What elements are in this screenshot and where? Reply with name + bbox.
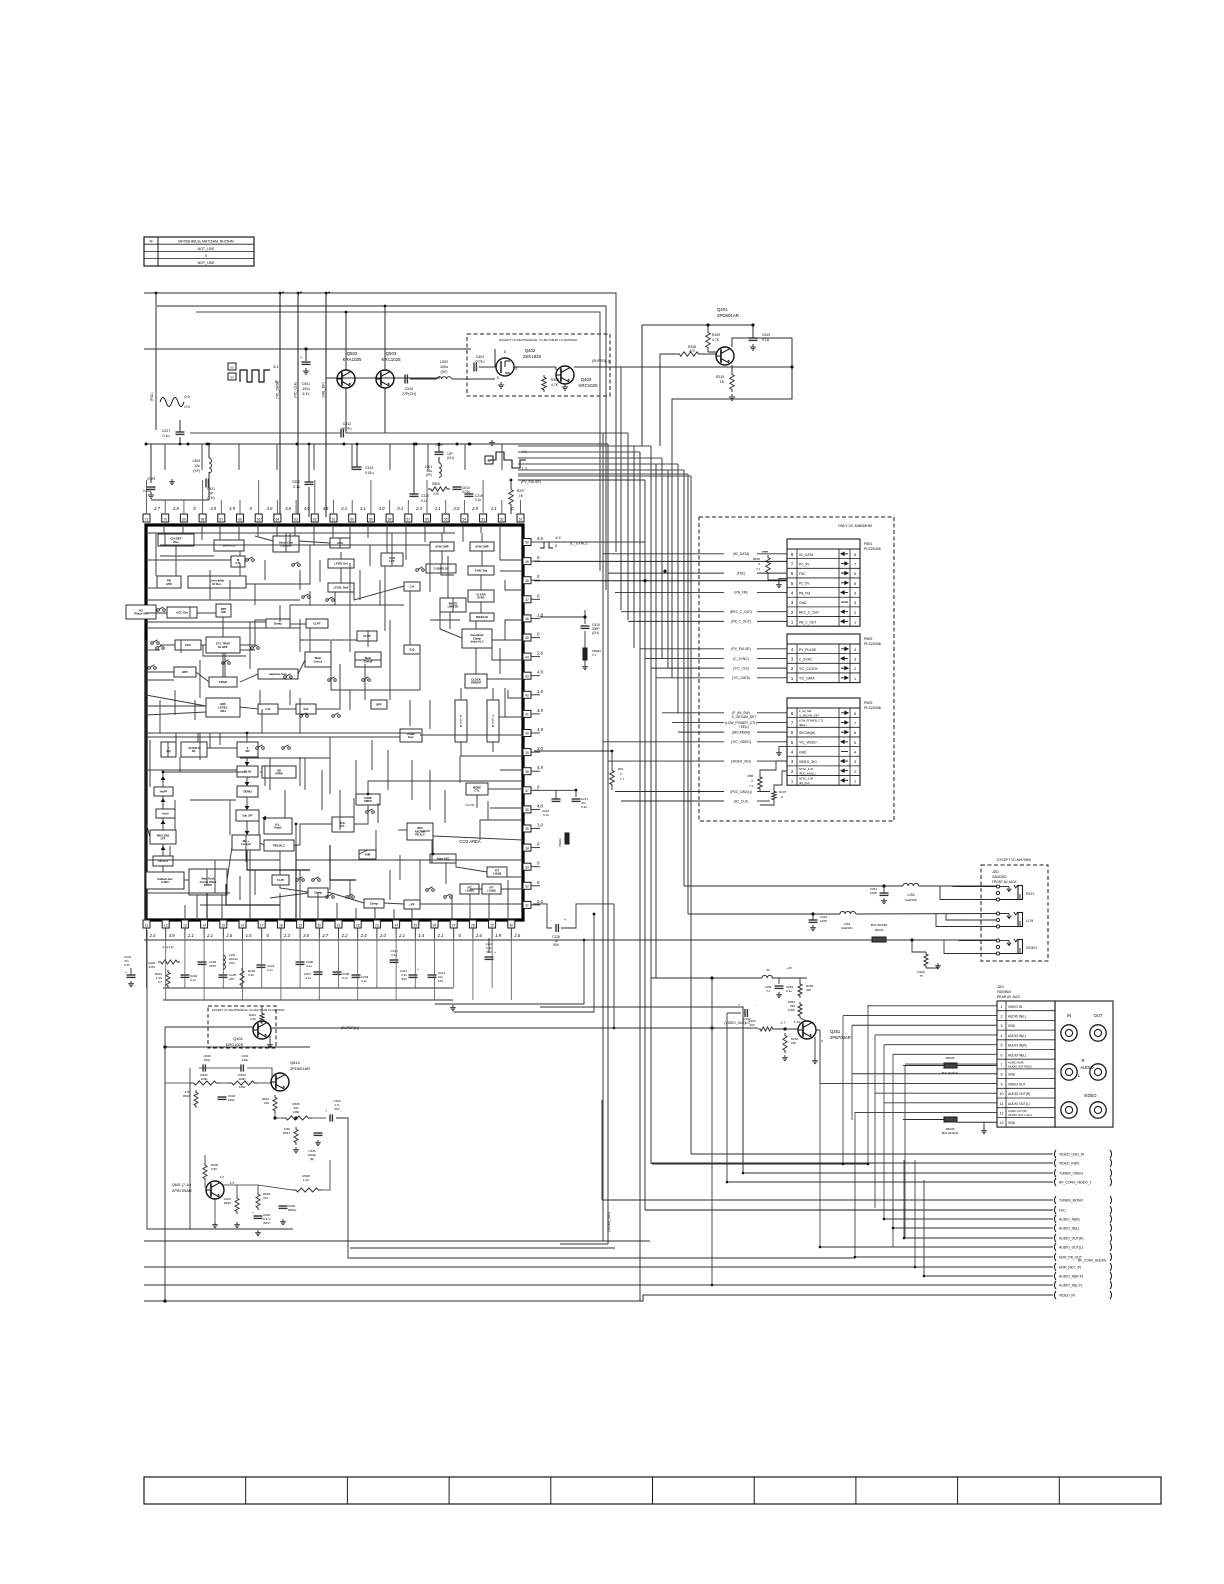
svg-text:12: 12: [1000, 1111, 1004, 1115]
wire: [420, 734, 523, 736]
wire: [247, 850, 310, 870]
terminal (RF_CONV_VIDEO_2: [1054, 1178, 1056, 1186]
svg-text:AUDIO IN(R): AUDIO IN(R): [1008, 1060, 1024, 1064]
wire: [146, 671, 174, 673]
svg-text:S: S: [497, 376, 499, 380]
svg-text:R210: R210: [716, 375, 724, 379]
svg-text:2SK1826: 2SK1826: [523, 354, 542, 359]
wire: [146, 619, 300, 628]
wire connector lead: [603, 553, 724, 555]
wire: [369, 545, 371, 566]
svg-text:36: 36: [525, 808, 529, 812]
block CH DET 2fsc: [158, 534, 194, 546]
svg-text:NTSC_4.43: NTSC_4.43: [799, 767, 814, 771]
svg-text:(B): (B): [310, 1157, 314, 1161]
svg-text:2.6: 2.6: [225, 933, 232, 938]
wire pin50 C_SYNC route: [540, 541, 645, 543]
transistor Q201 2PD601AR: [716, 347, 734, 365]
wire: [508, 690, 523, 698]
wires front jack lower contacts: [940, 886, 996, 900]
wire: [329, 860, 331, 890]
svg-text:Y/C_DATA: Y/C_DATA: [799, 677, 815, 681]
wire J201 lead: [875, 1092, 997, 1094]
wire: [429, 700, 431, 729]
wire connector lead: [608, 572, 724, 574]
wire: [146, 695, 206, 706]
block 0 DD: [237, 742, 258, 757]
svg-text:3.3K: 3.3K: [248, 973, 254, 977]
wire: [371, 740, 373, 770]
block SQUELCH: [470, 613, 494, 621]
svg-text:FA005WJ: FA005WJ: [997, 990, 1012, 994]
junction: [854, 1256, 857, 1259]
svg-text:4.6: 4.6: [537, 536, 543, 541]
svg-text:VIDEO_SIG: VIDEO_SIG: [799, 760, 817, 764]
svg-text:50V: 50V: [553, 943, 560, 947]
wire: [379, 580, 381, 605]
switch: [151, 642, 154, 645]
svg-text:AUDIO_IN(R-F): AUDIO_IN(R-F): [1059, 1275, 1083, 1279]
svg-text:VIDEO: VIDEO: [1026, 946, 1037, 950]
block SYNC AMP: [470, 542, 494, 551]
block Hash: [156, 809, 175, 818]
switch: [444, 896, 447, 899]
wire J201 lead: [852, 1024, 997, 1026]
svg-text:CTL: CTL: [474, 789, 480, 793]
svg-text:/AUDIO OUT R(EU): /AUDIO OUT R(EU): [1008, 1065, 1032, 1069]
svg-text:24: 24: [394, 924, 398, 928]
svg-text:Sub LPF: Sub LPF: [242, 813, 253, 817]
svg-text:R207: R207: [517, 489, 525, 493]
block F EQ: [161, 742, 176, 757]
wire: [398, 829, 407, 831]
svg-text:(Y/C_CLK): (Y/C_CLK): [294, 382, 298, 398]
ground L503 mid: [171, 479, 173, 482]
svg-text:2.1: 2.1: [437, 933, 444, 938]
svg-text:NTSC_3.58: NTSC_3.58: [799, 777, 814, 781]
svg-text:(GaR13F): (GaR13F): [841, 926, 853, 930]
wire: [441, 533, 443, 542]
inductor L503: [209, 458, 212, 463]
terminal (VIDEO_IN: [1054, 1291, 1056, 1299]
wire: [490, 807, 523, 809]
wire feeder: [518, 463, 656, 465]
svg-text:C519: C519: [762, 333, 770, 337]
square waveform glyph: [240, 370, 270, 382]
wire: [331, 667, 420, 690]
wire: [387, 750, 389, 790]
resistor R107: [772, 790, 776, 801]
wire: [290, 623, 306, 625]
capacitor C252 electrolytic: [744, 1009, 746, 1017]
svg-text:T.J: T.J: [620, 777, 624, 781]
wire connector lead: [672, 721, 724, 723]
wire vertical x614 to SUPER node: [613, 904, 615, 1028]
wire: [246, 559, 310, 584]
wire: [354, 805, 368, 824]
svg-text:SQUELCH: SQUELCH: [476, 616, 488, 619]
wire: [294, 525, 296, 536]
resistor R618: [194, 1090, 198, 1108]
junction: [438, 443, 441, 446]
wire: [377, 803, 379, 823]
wire bottom rail connect: [163, 1299, 166, 1302]
ferrite FB203: [583, 648, 587, 660]
wire: [246, 797, 248, 810]
wire feeder: [518, 445, 634, 447]
wire: [240, 757, 330, 759]
wire pin stub: [280, 938, 282, 1000]
dashed option box EXCEPT VC-MH75: [467, 334, 610, 396]
svg-text:67: 67: [220, 518, 224, 522]
svg-text:AUDIO IN(L): AUDIO IN(L): [1008, 1053, 1026, 1057]
wire: [336, 903, 338, 920]
wire: [246, 777, 248, 786]
wire: [507, 880, 509, 920]
svg-text:47K: 47K: [263, 1196, 268, 1200]
wire connector lead: [656, 677, 724, 679]
wire: [469, 894, 471, 920]
wire: [149, 740, 151, 787]
svg-text:52: 52: [487, 459, 491, 463]
svg-text:L252: L252: [907, 893, 914, 897]
wire: [500, 570, 523, 572]
capacitor C223: [257, 964, 266, 966]
wire: [238, 444, 240, 470]
switch: [300, 715, 303, 718]
svg-text:2.1: 2.1: [187, 933, 194, 938]
wire: [200, 904, 250, 906]
svg-text:PB_FM: PB_FM: [799, 591, 810, 595]
svg-text:5.1: 5.1: [273, 364, 279, 369]
wire: [229, 800, 231, 835]
switch: [426, 889, 429, 892]
svg-text:R106: R106: [753, 557, 761, 561]
block FM3 LEAD LPF: [150, 830, 176, 844]
wire: [300, 639, 330, 641]
svg-text:SW: SW: [221, 610, 226, 614]
IC bottom pin row: [143, 920, 150, 928]
capacitor C227: [176, 431, 185, 433]
dashed option box EXCEPT (Q401): [208, 1006, 276, 1048]
wire: [309, 591, 311, 605]
svg-text:LPF: LPF: [409, 902, 414, 906]
svg-text:0.1u: 0.1u: [475, 498, 481, 502]
svg-text:RF_CONV_VIDEO_2: RF_CONV_VIDEO_2: [1059, 1181, 1092, 1185]
svg-text:4.8: 4.8: [537, 803, 543, 808]
svg-text:4.9: 4.9: [229, 506, 235, 511]
junction: [711, 1284, 714, 1287]
svg-text:4.5: 4.5: [323, 506, 329, 511]
grounds Q601: [214, 1222, 216, 1225]
svg-text:/EE(L): /EE(L): [799, 723, 807, 727]
svg-text:10: 10: [1000, 1092, 1004, 1096]
wire feeder: [518, 469, 668, 471]
wire: [209, 570, 211, 600]
wire OSC stub: [155, 293, 157, 430]
svg-text:0.1u: 0.1u: [293, 485, 300, 489]
ground Q403: [564, 384, 566, 387]
svg-text:HPF: HPF: [182, 670, 188, 674]
svg-text:ACC: ACC: [185, 643, 192, 647]
wire pin stub: [146, 938, 148, 988]
svg-text:PC_5V: PC_5V: [799, 582, 810, 586]
svg-text:0.1U: 0.1U: [762, 338, 770, 342]
svg-text:R88: R88: [747, 774, 753, 778]
wire connector lead: [678, 731, 724, 733]
svg-text:Video ALC: Video ALC: [471, 640, 484, 644]
svg-text:2PB709AR: 2PB709AR: [172, 1188, 192, 1193]
svg-text:57: 57: [407, 518, 411, 522]
svg-text:22P: 22P: [229, 977, 234, 981]
wire: [409, 700, 411, 726]
wire: [320, 823, 332, 825]
svg-text:Hash: Hash: [162, 811, 169, 815]
svg-text:5: 5: [1001, 1044, 1003, 1048]
front jack RCH: [996, 885, 999, 888]
svg-text:/IIC_CLK: /IIC_CLK: [799, 781, 810, 785]
block SYNC Sep: [468, 566, 494, 575]
block Serial Com Interface: [273, 536, 299, 552]
svg-text:(Y/C_CLK): (Y/C_CLK): [733, 666, 749, 670]
switch: [284, 676, 287, 679]
svg-text:+: +: [738, 1003, 740, 1007]
rail to TUNER_VIDEO: [743, 1172, 1053, 1174]
svg-text:FB202: FB202: [558, 838, 562, 847]
svg-text:LPF: LPF: [161, 837, 166, 840]
wire: [254, 870, 256, 895]
wire: [460, 688, 462, 700]
svg-text:0.01u: 0.01u: [143, 489, 151, 493]
wire: [329, 737, 331, 794]
svg-text:2.1: 2.1: [206, 933, 213, 938]
wire: [261, 709, 263, 733]
wire: [196, 672, 209, 682]
wire: [304, 758, 306, 790]
block CLOCK DRIVER: [465, 674, 487, 688]
svg-text:Q402: Q402: [525, 348, 536, 353]
block LPF: [404, 900, 420, 909]
svg-text:BPF: BPF: [376, 702, 382, 706]
svg-text:GND: GND: [799, 750, 807, 754]
svg-text:VIDEO_IN(P): VIDEO_IN(P): [1059, 1162, 1079, 1166]
connector P501: [787, 539, 860, 626]
svg-text:3.3K: 3.3K: [250, 1017, 256, 1021]
wire: [175, 733, 177, 742]
terminal (NOR_REC_IN: [1054, 1263, 1056, 1271]
wire: [146, 732, 421, 734]
svg-text:5: 5: [854, 741, 856, 745]
wire: [179, 757, 181, 772]
svg-text:0.1u: 0.1u: [305, 976, 311, 980]
ground J201 pin13: [983, 1122, 985, 1128]
junction: [867, 1163, 870, 1166]
wire pin stub: [261, 938, 263, 988]
wire: [492, 648, 523, 660]
wire rail y325 to Q201: [642, 324, 708, 326]
wire: [184, 879, 189, 881]
capacitor C217: [575, 790, 577, 797]
IC main body VC video processor: [146, 525, 523, 920]
capacitor C631: [240, 1064, 242, 1071]
svg-text:M: M: [150, 240, 153, 244]
svg-text:0.1u: 0.1u: [543, 813, 549, 817]
block C C C D: [455, 700, 467, 742]
svg-text:12u: 12u: [194, 464, 200, 468]
svg-text:(Y/C_VIDEO): (Y/C_VIDEO): [731, 740, 751, 744]
svg-text:GA002WJ: GA002WJ: [992, 875, 1007, 879]
svg-text:45: 45: [525, 636, 529, 640]
resistor R209: [706, 330, 710, 350]
svg-text:SYNC Sep: SYNC Sep: [475, 568, 488, 572]
svg-text:BLN-005C8E: BLN-005C8E: [871, 923, 888, 927]
svg-text:7: 7: [854, 563, 856, 567]
block BPF SW: [216, 604, 231, 617]
wire: [452, 598, 454, 612]
terminal (NOR_PB_OUT: [1054, 1253, 1056, 1261]
block TRAP: [209, 677, 237, 687]
wire bus vertical: [605, 306, 607, 590]
svg-text:53: 53: [481, 518, 485, 522]
wire: [196, 895, 198, 920]
wire connector lead: [628, 620, 724, 622]
svg-text:4.7K: 4.7K: [551, 383, 559, 387]
wire: [279, 851, 281, 875]
wire: [280, 885, 308, 892]
wire: [299, 628, 301, 652]
wire: [500, 525, 523, 560]
svg-text:ADJ: ADJ: [220, 709, 226, 713]
wire: [359, 570, 361, 600]
svg-text:3.8: 3.8: [285, 506, 291, 511]
svg-text:220p: 220p: [228, 1098, 235, 1102]
RCA jack IN: [1061, 1025, 1077, 1041]
svg-text:61: 61: [332, 518, 336, 522]
wire: [240, 707, 258, 709]
svg-text:60: 60: [230, 366, 234, 370]
transistor Q502 KRA1025: [337, 370, 355, 388]
svg-text:CT: CT: [158, 980, 162, 984]
wire: [501, 444, 503, 470]
svg-text:11: 11: [1000, 1102, 1004, 1106]
wire: [411, 909, 413, 920]
junction: [923, 1275, 926, 1278]
svg-text:/L_SECAM_DET: /L_SECAM_DET: [799, 713, 820, 717]
svg-text:REAR AV JACK: REAR AV JACK: [997, 995, 1021, 999]
wire: [146, 823, 150, 837]
capacitor C501 electrolytic: [305, 349, 307, 361]
wire: [246, 757, 248, 766]
junction: [208, 443, 211, 446]
svg-text:TRAP: TRAP: [219, 680, 227, 684]
wire: [451, 894, 453, 920]
block N.L. Emph: [264, 818, 292, 834]
wire: [249, 622, 251, 669]
sine waveform glyph: [160, 398, 184, 407]
svg-text:0.1u: 0.1u: [190, 978, 196, 982]
wire: [461, 742, 523, 756]
svg-text:(SRL_DP): (SRL_DP): [322, 382, 326, 397]
svg-text:8: 8: [1001, 1073, 1003, 1077]
wire bus vertical: [599, 312, 601, 571]
svg-text:12: 12: [164, 924, 168, 928]
wire: [146, 892, 230, 894]
wire: [459, 756, 461, 783]
svg-text:75: 75: [919, 974, 923, 978]
wire: [480, 820, 523, 840]
footer table: [144, 1477, 1161, 1504]
wire: [505, 620, 523, 640]
svg-text:2.8: 2.8: [172, 506, 179, 511]
svg-text:16V: 16V: [438, 979, 443, 983]
junction: [274, 1117, 277, 1120]
terminal (AUDIO_IN(R-F): [1054, 1272, 1056, 1280]
block M CTL: [231, 556, 245, 567]
wire: [492, 742, 494, 752]
wire: [146, 621, 266, 623]
wire bottom-left verticals: [164, 1046, 166, 1048]
wire pin stub: [434, 938, 436, 1000]
block PB APC: [157, 576, 181, 588]
wire: [174, 690, 176, 715]
svg-text:(XF): (XF): [193, 469, 200, 473]
capacitor C634 electrolytic: [329, 1114, 331, 1121]
wire: [163, 772, 247, 787]
wire: [279, 893, 281, 920]
switch: [326, 896, 329, 899]
capacitor C632: [218, 1096, 227, 1098]
wire: [340, 568, 342, 583]
svg-text:18: 18: [279, 924, 283, 928]
svg-text:T.J: T.J: [756, 567, 760, 571]
capacitor C515: [584, 617, 586, 624]
svg-text:(C_SYNC): (C_SYNC): [733, 657, 749, 661]
block FM VCO: [153, 856, 173, 866]
wire: [480, 525, 482, 533]
block Color killer ID Det.: [188, 576, 246, 588]
wire: [164, 444, 166, 470]
dashed option box ONLY VC-MH635HM: [699, 517, 894, 821]
wire: [296, 824, 523, 860]
svg-text:T-LPF: T-LPF: [277, 878, 285, 882]
block PBC/ALC: [264, 840, 294, 851]
wire: [239, 551, 241, 556]
wire: [229, 580, 231, 600]
wire: [504, 688, 506, 717]
ground Q402 source: [500, 382, 502, 385]
svg-text:100: 100: [749, 1023, 754, 1027]
svg-text:P501: P501: [864, 542, 872, 546]
capacitor C401: [473, 363, 475, 372]
block Main Conv1: [305, 652, 331, 667]
svg-text:PLS20406: PLS20406: [864, 547, 881, 551]
wire: [197, 733, 199, 742]
rail to NOR_PB_OUT: [855, 1256, 1053, 1258]
svg-text:2PD601AR: 2PD601AR: [290, 1066, 310, 1071]
wire Q601 left border: [147, 930, 293, 1229]
wire: [163, 525, 165, 534]
wire J201 lead: [884, 1044, 997, 1046]
svg-text:-: -: [426, 968, 427, 972]
wire vertical: [867, 1006, 869, 1164]
resistor R608: [292, 1188, 322, 1192]
wire: [246, 733, 248, 742]
wire: [258, 816, 260, 835]
block dephase Gen: [258, 669, 298, 679]
block B.Q: [404, 645, 420, 654]
junction: [179, 443, 182, 446]
wire: [167, 742, 169, 757]
